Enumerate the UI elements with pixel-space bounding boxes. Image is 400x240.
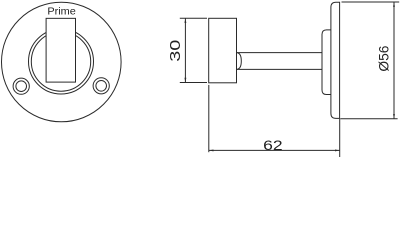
svg-text:30: 30 [168, 40, 184, 62]
svg-text:62: 62 [263, 137, 283, 153]
svg-text:Ø56: Ø56 [377, 46, 392, 72]
svg-text:Prime: Prime [47, 6, 76, 18]
